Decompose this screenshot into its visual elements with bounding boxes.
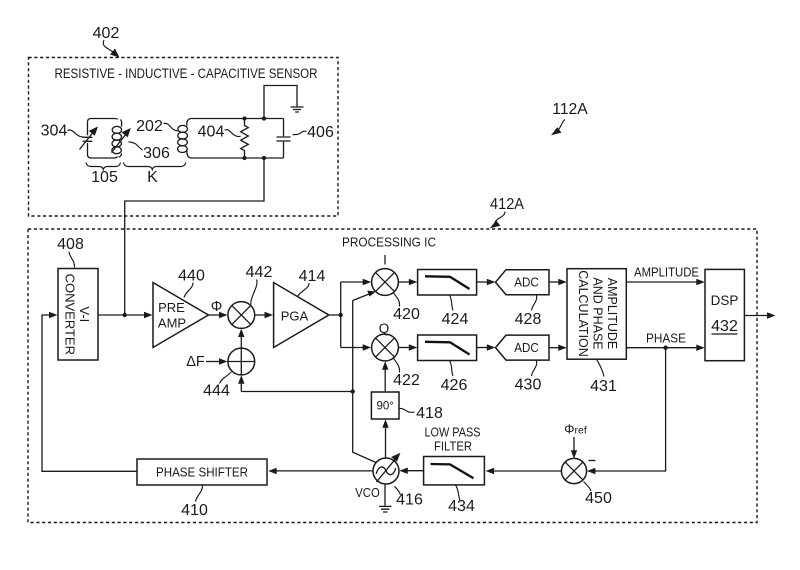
svg-text:428: 428	[515, 311, 542, 328]
svg-text:432: 432	[711, 318, 738, 335]
svg-text:414: 414	[299, 268, 326, 285]
junction node (sensor input)	[123, 313, 127, 317]
minus sign at mixer 450	[589, 460, 596, 462]
DSP U432	[705, 269, 744, 360]
ground (sensor)	[291, 107, 304, 112]
svg-text:PHASE: PHASE	[646, 332, 686, 346]
resistor 404	[241, 116, 249, 160]
label 442	[246, 264, 273, 305]
wire LPF424 to ADC428	[477, 281, 488, 283]
wire LPF 434 to VCO	[407, 470, 424, 472]
svg-text:410: 410	[181, 502, 208, 519]
label 408	[57, 236, 84, 268]
svg-text:426: 426	[441, 377, 468, 394]
junction phase feedback	[663, 346, 667, 350]
svg-text:402: 402	[93, 25, 120, 42]
svg-text:I: I	[383, 253, 387, 268]
svg-text:AMPLITUDE: AMPLITUDE	[634, 266, 699, 280]
svg-text:ADC: ADC	[514, 340, 539, 355]
svg-text:LOW PASS: LOW PASS	[425, 426, 481, 440]
brace under loop 105	[86, 163, 121, 170]
svg-text:K: K	[147, 169, 158, 186]
wire pre-amp to mixer 442	[208, 314, 220, 316]
label 431	[590, 359, 617, 395]
svg-text:442: 442	[246, 264, 273, 281]
phase feedback wire to mixer 450	[594, 348, 666, 471]
sense loop top rail	[191, 118, 284, 120]
V-I converter box U408	[58, 269, 98, 361]
label 426	[441, 361, 468, 395]
capacitor 406	[277, 119, 291, 159]
junction LO/adder	[351, 389, 355, 393]
svg-text:90°: 90°	[377, 401, 394, 413]
label 430	[515, 360, 542, 393]
label 306	[129, 142, 170, 162]
svg-text:RESISTIVE - INDUCTIVE - CAPACI: RESISTIVE - INDUCTIVE - CAPACITIVE SENSO…	[55, 66, 318, 81]
label 420	[393, 293, 420, 323]
label 304	[41, 123, 84, 140]
label 428	[515, 295, 542, 328]
wire mixer422 to LPF426	[398, 347, 410, 349]
svg-text:440: 440	[178, 268, 205, 285]
wire mixer 442 to PGA	[255, 314, 266, 316]
svg-text:202: 202	[136, 118, 163, 135]
mixer U450	[561, 458, 586, 483]
wire ADC430 to calc	[549, 347, 560, 349]
label 202	[136, 118, 179, 135]
ground (VCO)	[379, 484, 392, 512]
svg-text:424: 424	[442, 311, 469, 328]
wire mixer420 to LPF424	[398, 281, 410, 283]
label 440	[178, 268, 205, 298]
sense loop bottom rail	[191, 157, 284, 159]
wire phi-ref to mixer 450	[573, 437, 575, 452]
sensor enclosure box (dashed)	[29, 58, 339, 217]
amplitude and phase calculation U431	[567, 269, 626, 360]
90 degree phase box U418	[371, 392, 399, 419]
processing IC enclosure box (dashed)	[28, 229, 757, 523]
label 406	[293, 124, 334, 141]
svg-text:V-ICONVERTER: V-ICONVERTER	[63, 274, 93, 355]
PGA amplifier U414	[274, 283, 329, 348]
svg-text:PRE: PRE	[158, 300, 185, 315]
label 402	[93, 25, 120, 58]
svg-text:ΔF: ΔF	[186, 354, 205, 370]
svg-text:408: 408	[57, 236, 84, 253]
wire PGA output split	[329, 279, 371, 351]
svg-text:420: 420	[393, 306, 420, 323]
phase shifter U410	[137, 459, 267, 485]
svg-text:430: 430	[515, 377, 542, 394]
svg-text:418: 418	[416, 405, 443, 422]
svg-text:450: 450	[585, 490, 612, 507]
label 424	[442, 295, 469, 328]
low-pass filter U424	[418, 270, 477, 296]
svg-text:422: 422	[393, 372, 420, 389]
wire LO to adder bottom	[241, 382, 352, 392]
VCO U416	[373, 453, 401, 484]
svg-text:306: 306	[143, 145, 170, 162]
svg-text:DSP: DSP	[711, 293, 739, 308]
brace K (coupling)	[124, 163, 186, 170]
label 418	[400, 405, 443, 422]
wire amplitude to DSP	[626, 281, 697, 283]
wire sensor output to pre-amp line	[125, 158, 264, 315]
label 414	[298, 268, 326, 297]
label 404	[198, 124, 241, 141]
svg-text:AMP: AMP	[158, 316, 186, 331]
svg-text:412A: 412A	[490, 196, 524, 213]
wire phase to DSP	[626, 347, 697, 349]
sensor target loop (105) wires	[88, 119, 118, 159]
svg-text:406: 406	[307, 124, 334, 141]
low-pass filter U434	[424, 457, 485, 485]
sense coil 202	[187, 119, 191, 159]
svg-text:FILTER: FILTER	[434, 440, 472, 454]
label 450	[584, 482, 612, 508]
svg-text:Φref: Φref	[564, 422, 587, 437]
svg-text:VCO: VCO	[355, 486, 380, 500]
wire V-I converter to pre-amp	[98, 314, 145, 316]
svg-text:434: 434	[448, 498, 475, 515]
svg-text:ADC: ADC	[514, 275, 539, 290]
ADC U430	[496, 335, 550, 360]
mixer U442	[228, 302, 255, 329]
svg-text:112A: 112A	[552, 101, 588, 118]
LO line VCO to I mixer	[353, 294, 376, 463]
label 434	[448, 485, 475, 515]
variable inductor coil 306	[112, 120, 131, 158]
wire VCO to phase shifter	[276, 470, 374, 472]
label 112A	[551, 101, 588, 135]
adder U444	[228, 348, 255, 375]
svg-text:105: 105	[91, 169, 118, 186]
wire to ground	[264, 86, 297, 119]
svg-text:PROCESSING IC: PROCESSING IC	[342, 235, 436, 250]
mixer U422	[372, 334, 399, 361]
mixer U420	[372, 269, 399, 296]
wire VCO to 90 degree box	[385, 427, 387, 459]
low-pass filter U426	[418, 335, 477, 361]
wire LPF426 to ADC430	[477, 347, 488, 349]
wire adder to mixer 442	[240, 336, 242, 348]
ADC U428	[496, 270, 550, 295]
label 410	[181, 486, 208, 520]
wire 90 degree to mixer 422	[384, 369, 386, 393]
feedback wire phase shifter to V-I converter	[42, 315, 137, 471]
svg-text:404: 404	[198, 124, 225, 141]
label 416	[395, 487, 423, 509]
wire mixer 450 to LPF 434	[493, 470, 561, 472]
svg-text:431: 431	[590, 378, 617, 395]
svg-text:444: 444	[203, 383, 230, 400]
wire ADC428 to calc	[549, 281, 560, 283]
label 422	[393, 358, 420, 389]
svg-text:PHASE SHIFTER: PHASE SHIFTER	[156, 465, 248, 480]
svg-text:304: 304	[41, 123, 68, 140]
svg-text:PGA: PGA	[281, 309, 309, 324]
svg-text:AMPLITUDEAND PHASECALCULATION: AMPLITUDEAND PHASECALCULATION	[576, 270, 619, 357]
label 412A	[490, 196, 524, 228]
label 444	[203, 372, 231, 400]
node dots on sense loop	[262, 116, 266, 120]
pre-amp U440	[153, 283, 208, 348]
variable capacitor 304	[80, 127, 99, 150]
wire delta-F to adder	[206, 361, 220, 363]
DSP output wire	[744, 315, 768, 317]
